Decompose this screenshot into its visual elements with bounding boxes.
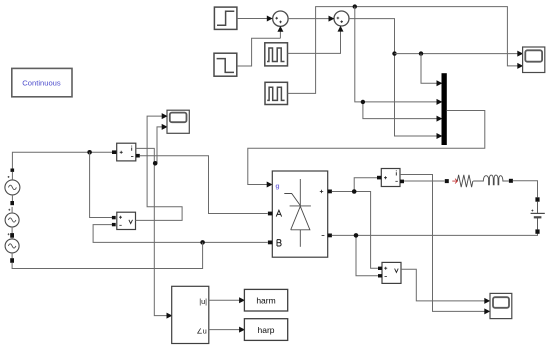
wire I2 output to RLC branch [404, 180, 445, 182]
mux Mux [442, 73, 447, 145]
wire fourier angle to harp [209, 327, 245, 333]
wire bridge minus output rail [332, 234, 538, 276]
svg-text:harp: harp [257, 325, 274, 335]
junction dot plus rail [352, 189, 357, 194]
junction dot sum2 output branch [392, 51, 396, 55]
current measurement block I2 [377, 169, 404, 187]
wire B junction to source chain bottom [12, 242, 203, 268]
dc voltage source [531, 197, 545, 233]
voltage measurement block U1 [112, 212, 136, 229]
sum block Sum2 [334, 11, 349, 26]
voltage measurement block U2 [378, 262, 401, 283]
svg-text:∠u: ∠u [196, 327, 206, 336]
junction dot i signal [153, 161, 158, 166]
wire Pulse1 to Sum2 lower input [288, 26, 344, 54]
ac source V2 [5, 201, 19, 233]
powergui block Continuous [12, 68, 72, 96]
wire fourier magnitude to harm [209, 297, 245, 303]
thyristor symbol inside bridge [284, 179, 311, 247]
ac source V3 [5, 233, 19, 263]
current measurement block I1 [112, 143, 140, 161]
wire i signal down to Fourier with scope branch [136, 124, 173, 319]
display block harp [244, 319, 287, 341]
ac source V1 [5, 169, 20, 202]
junction dot source rail [87, 150, 92, 155]
svg-text:g: g [275, 183, 279, 190]
wire Pulse2 to top rail and Scope2 input 2 [288, 7, 524, 94]
wire Step1 to Sum1 [237, 16, 273, 22]
junction dot minus rail [354, 233, 359, 238]
series RLC branch [445, 175, 513, 187]
wire top rail to Mux inputs 2 and 3 [355, 7, 443, 122]
wire to Scope2 input 1 [395, 51, 524, 57]
wire Mux output to bridge gate g [248, 111, 485, 188]
junction dot top rail [353, 4, 357, 8]
svg-text:harm: harm [256, 296, 275, 306]
junction dot mux2 branch [361, 100, 365, 104]
wire bridge plus output rail [332, 178, 378, 269]
scope Scope2 top right [523, 47, 545, 73]
thyristor bridge block [268, 171, 332, 257]
wire current measurement minus to bridge A [140, 156, 268, 214]
wire voltage measurement output to Scope1 input 1 [136, 113, 183, 220]
pulse generator Pulse2 [265, 82, 288, 104]
scope Scope3 bottom right [490, 293, 512, 318]
junction dot mux1 branch [419, 51, 423, 55]
wire I2 i signal to Scope3 input 2 [400, 175, 490, 315]
pulse generator Pulse1 [265, 43, 288, 66]
svg-text:Continuous: Continuous [22, 78, 61, 87]
wire junction to Mux input 1 [421, 54, 442, 87]
wire RLC to DC source [513, 181, 538, 198]
wire Sum2 output to Mux input 4 [349, 19, 442, 139]
wire junction down to voltage measurement plus [90, 152, 113, 217]
svg-text:|u|: |u| [199, 297, 207, 306]
wire U2 output to Scope3 input 1 [401, 269, 490, 304]
wire Step2 to Sum1 lower input [237, 26, 283, 66]
scope Scope1 mid left [167, 110, 189, 133]
wire source top to current measurement [12, 152, 112, 168]
junction dot B line [200, 240, 205, 245]
display block harm [244, 289, 287, 311]
wire voltage measurement minus to B line [93, 225, 268, 243]
fourier block [172, 286, 209, 343]
step block Step1 [214, 7, 237, 29]
wire Sum1 to Sum2 [288, 16, 334, 22]
sum block Sum1 [273, 11, 288, 26]
step block Step2 [214, 53, 237, 76]
